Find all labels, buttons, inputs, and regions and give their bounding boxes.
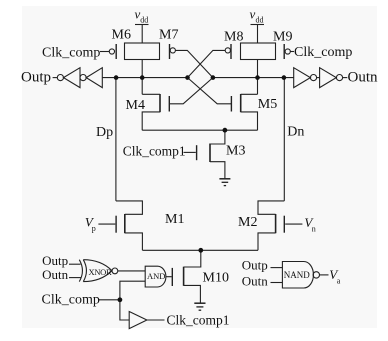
svg-text:p: p [92, 224, 96, 233]
svg-text:Outp: Outp [42, 253, 68, 268]
svg-text:Outn: Outn [242, 274, 268, 289]
svg-text:Dn: Dn [287, 125, 304, 140]
svg-text:M4: M4 [126, 98, 145, 113]
svg-text:M5: M5 [258, 97, 277, 112]
svg-text:M1: M1 [165, 212, 184, 227]
svg-text:dd: dd [256, 16, 264, 25]
svg-text:n: n [312, 225, 316, 234]
svg-text:NAND: NAND [284, 270, 310, 280]
svg-text:M8: M8 [224, 30, 243, 45]
svg-text:Clk_comp: Clk_comp [294, 45, 352, 60]
svg-text:Clk_comp1: Clk_comp1 [167, 313, 230, 328]
svg-text:M2: M2 [238, 215, 257, 230]
svg-text:Outp: Outp [242, 258, 268, 273]
svg-text:M6: M6 [112, 28, 131, 43]
svg-text:Outn: Outn [348, 70, 379, 86]
svg-text:AND: AND [147, 271, 165, 281]
svg-text:M9: M9 [273, 30, 292, 45]
svg-text:Outn: Outn [42, 267, 69, 282]
svg-text:Clk_comp1: Clk_comp1 [123, 144, 186, 159]
svg-text:a: a [337, 277, 341, 286]
svg-text:Clk_comp: Clk_comp [42, 293, 100, 308]
svg-text:Clk_comp: Clk_comp [42, 46, 100, 61]
svg-text:M3: M3 [226, 144, 245, 159]
svg-text:Outp: Outp [21, 70, 51, 86]
svg-text:M7: M7 [159, 28, 178, 43]
svg-text:dd: dd [140, 16, 148, 25]
svg-text:Dp: Dp [96, 125, 113, 140]
svg-text:M10: M10 [203, 271, 229, 286]
svg-text:XNOR: XNOR [89, 267, 113, 277]
